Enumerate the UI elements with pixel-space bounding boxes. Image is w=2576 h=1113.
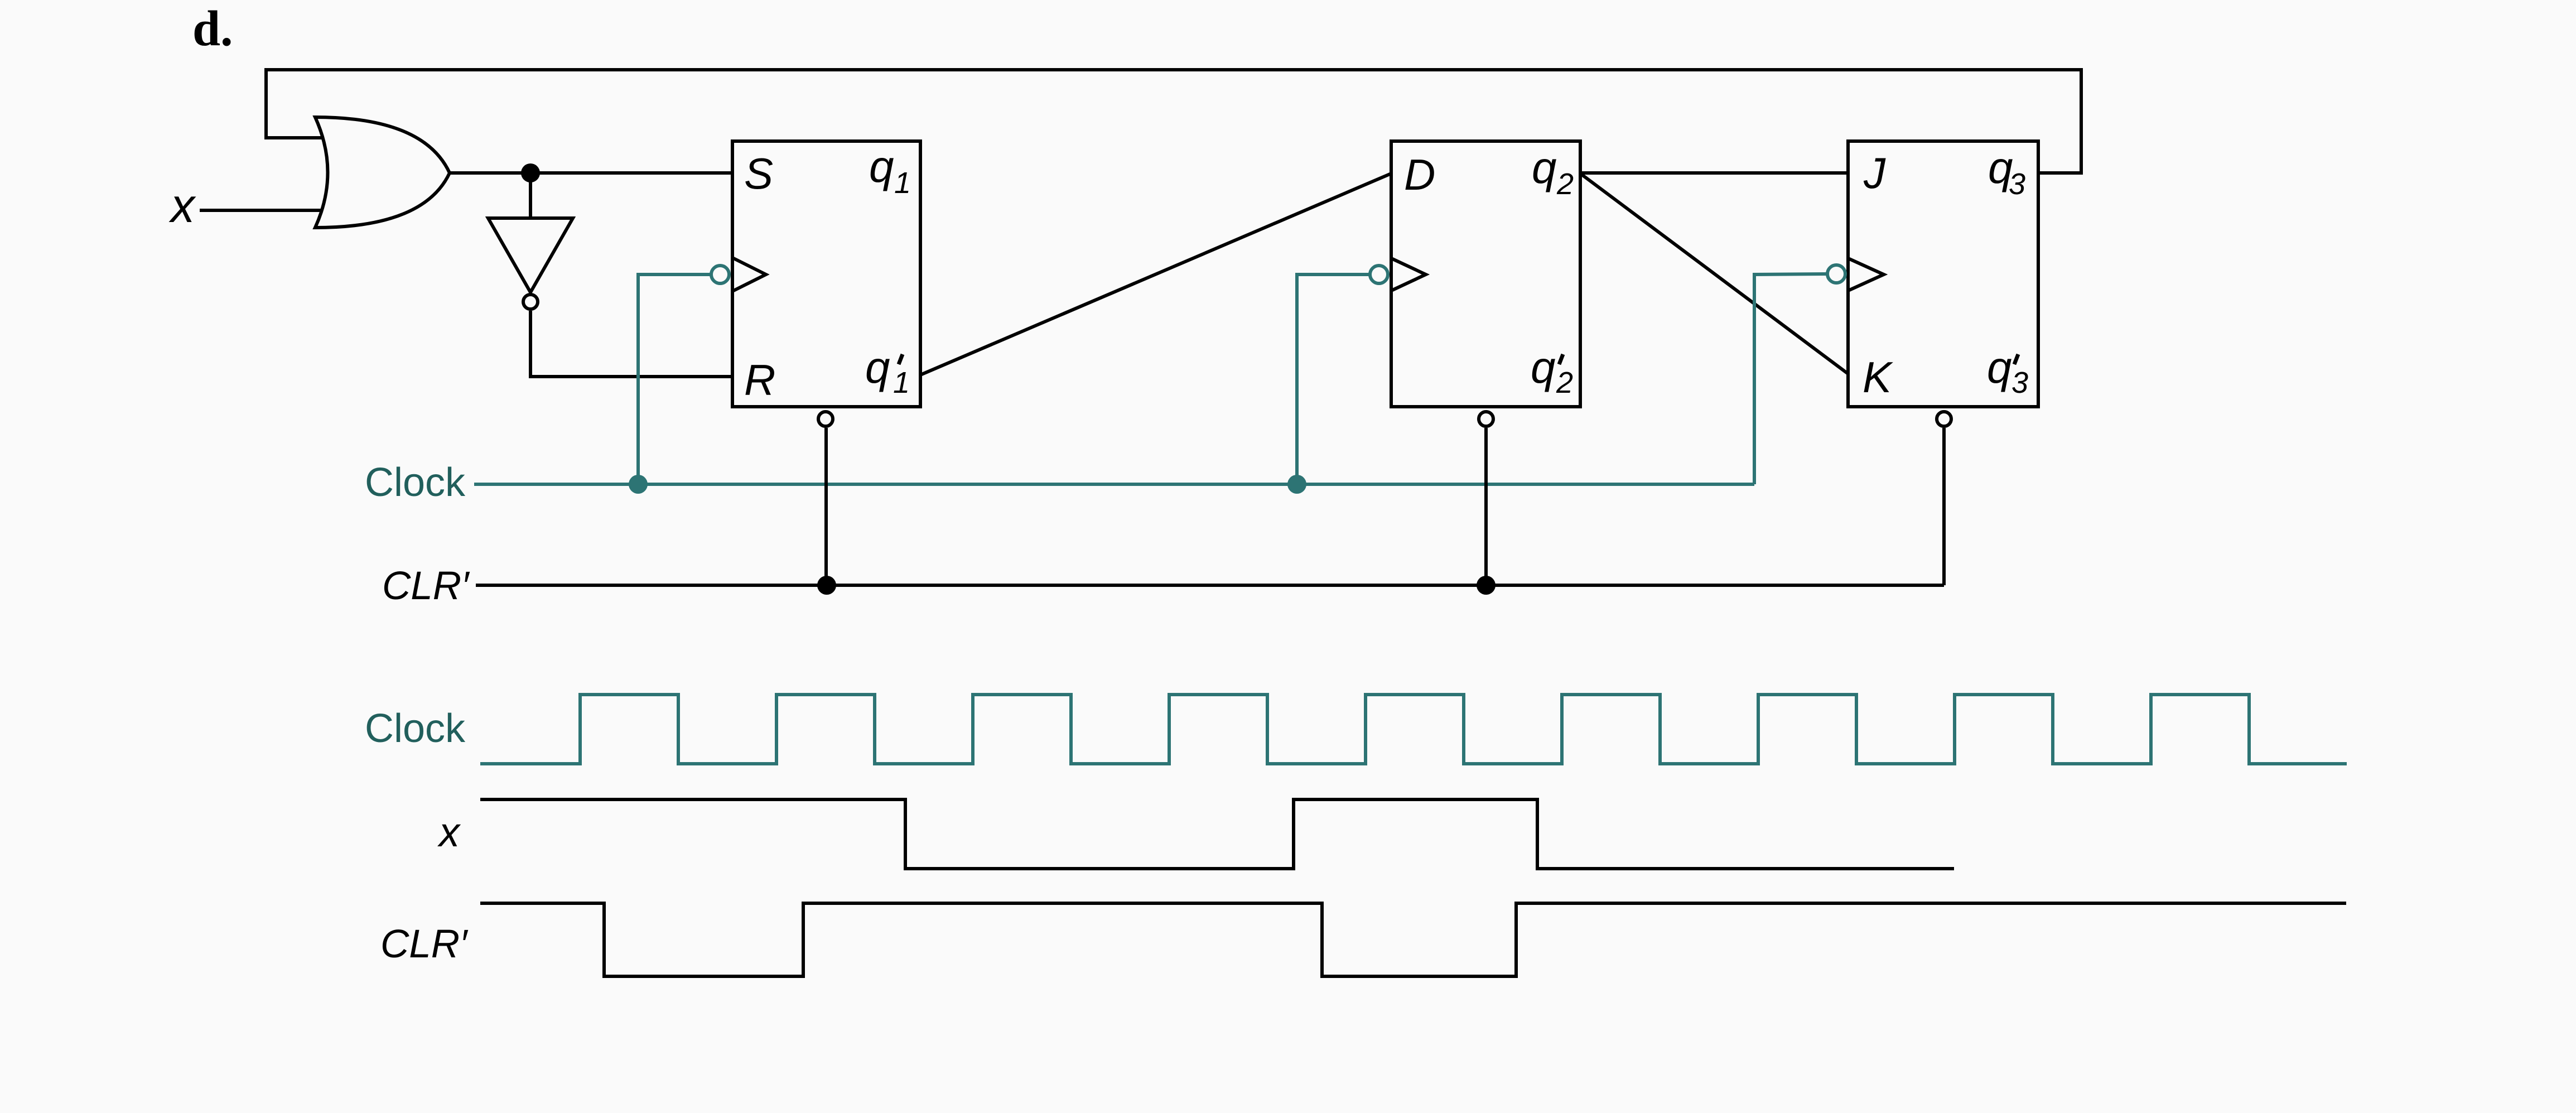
- wire clock to FF1: [638, 274, 711, 484]
- svg-text:2: 2: [1556, 366, 1573, 399]
- svg-text:3: 3: [2011, 366, 2028, 399]
- svg-text:2: 2: [1556, 167, 1574, 201]
- svg-text:Clock: Clock: [365, 706, 466, 751]
- svg-text:3: 3: [2009, 167, 2025, 201]
- wire q2 to K (diagonal): [1580, 174, 1848, 374]
- svg-text:1: 1: [894, 166, 911, 200]
- svg-text:q: q: [1531, 343, 1556, 392]
- svg-text:D: D: [1404, 150, 1435, 199]
- wire clock to FF3: [1754, 274, 1827, 484]
- svg-text:S: S: [744, 149, 773, 198]
- wire OR output to S: [448, 171, 732, 175]
- wire CLR to FF2 bubble: [1484, 428, 1488, 585]
- wire clock trunk: [474, 483, 1754, 486]
- async clear bubble FF2: [1479, 412, 1493, 426]
- clock edge triangle FF1: [732, 258, 766, 291]
- waveform x trace: [480, 799, 1954, 869]
- wire q2 to J: [1580, 171, 1848, 175]
- svg-text:1: 1: [893, 366, 910, 399]
- inverter U1: [488, 218, 573, 292]
- svg-text:d.: d.: [192, 1, 233, 56]
- junction clock-FF2: [1287, 475, 1306, 494]
- clock edge triangle FF2: [1391, 258, 1426, 291]
- svg-text:q: q: [869, 142, 894, 191]
- clock bubble FF3: [1827, 265, 1845, 283]
- flip-flop U2 (SR): [732, 141, 920, 407]
- svg-text:CLR′: CLR′: [380, 922, 469, 966]
- wire x input: [200, 209, 335, 212]
- svg-text:J: J: [1863, 148, 1886, 197]
- svg-text:q: q: [865, 343, 890, 392]
- waveform CLR' trace: [480, 903, 2346, 976]
- clock bubble FF1: [711, 266, 729, 283]
- flip-flop U4 (JK): [1848, 141, 2038, 407]
- svg-text:CLR′: CLR′: [382, 564, 470, 608]
- clock edge triangle FF3: [1848, 258, 1884, 291]
- junction node A: [521, 163, 540, 182]
- wire junction to inverter: [529, 173, 532, 218]
- wire CLR' trunk: [476, 584, 1944, 587]
- junction CLR-FF2: [1477, 576, 1496, 595]
- waveform Clock trace: [480, 695, 2347, 764]
- wire CLR to FF3 bubble: [1942, 428, 1946, 585]
- wire feedback q3 to OR top input: [266, 70, 2081, 173]
- svg-text:K: K: [1863, 353, 1893, 402]
- junction CLR-FF1: [817, 576, 836, 595]
- svg-text:R: R: [744, 355, 775, 404]
- wire inverter to R: [530, 311, 732, 377]
- wire clock to FF2: [1297, 274, 1370, 484]
- junction clock-FF1: [629, 475, 648, 494]
- wire q1' to D (diagonal): [920, 174, 1391, 375]
- svg-text:Clock: Clock: [365, 460, 466, 505]
- svg-text:q: q: [1532, 143, 1557, 192]
- async clear bubble FF1: [818, 412, 833, 426]
- wire CLR to FF1 bubble: [824, 428, 828, 585]
- async clear bubble FF3: [1937, 412, 1951, 426]
- inverter bubble: [523, 295, 538, 309]
- svg-text:q: q: [1987, 343, 2012, 392]
- svg-text:x: x: [168, 179, 196, 233]
- svg-text:x: x: [437, 809, 461, 855]
- clock bubble FF2: [1370, 266, 1388, 283]
- OR gate G1: [315, 117, 450, 228]
- flip-flop U3 (D): [1391, 141, 1580, 407]
